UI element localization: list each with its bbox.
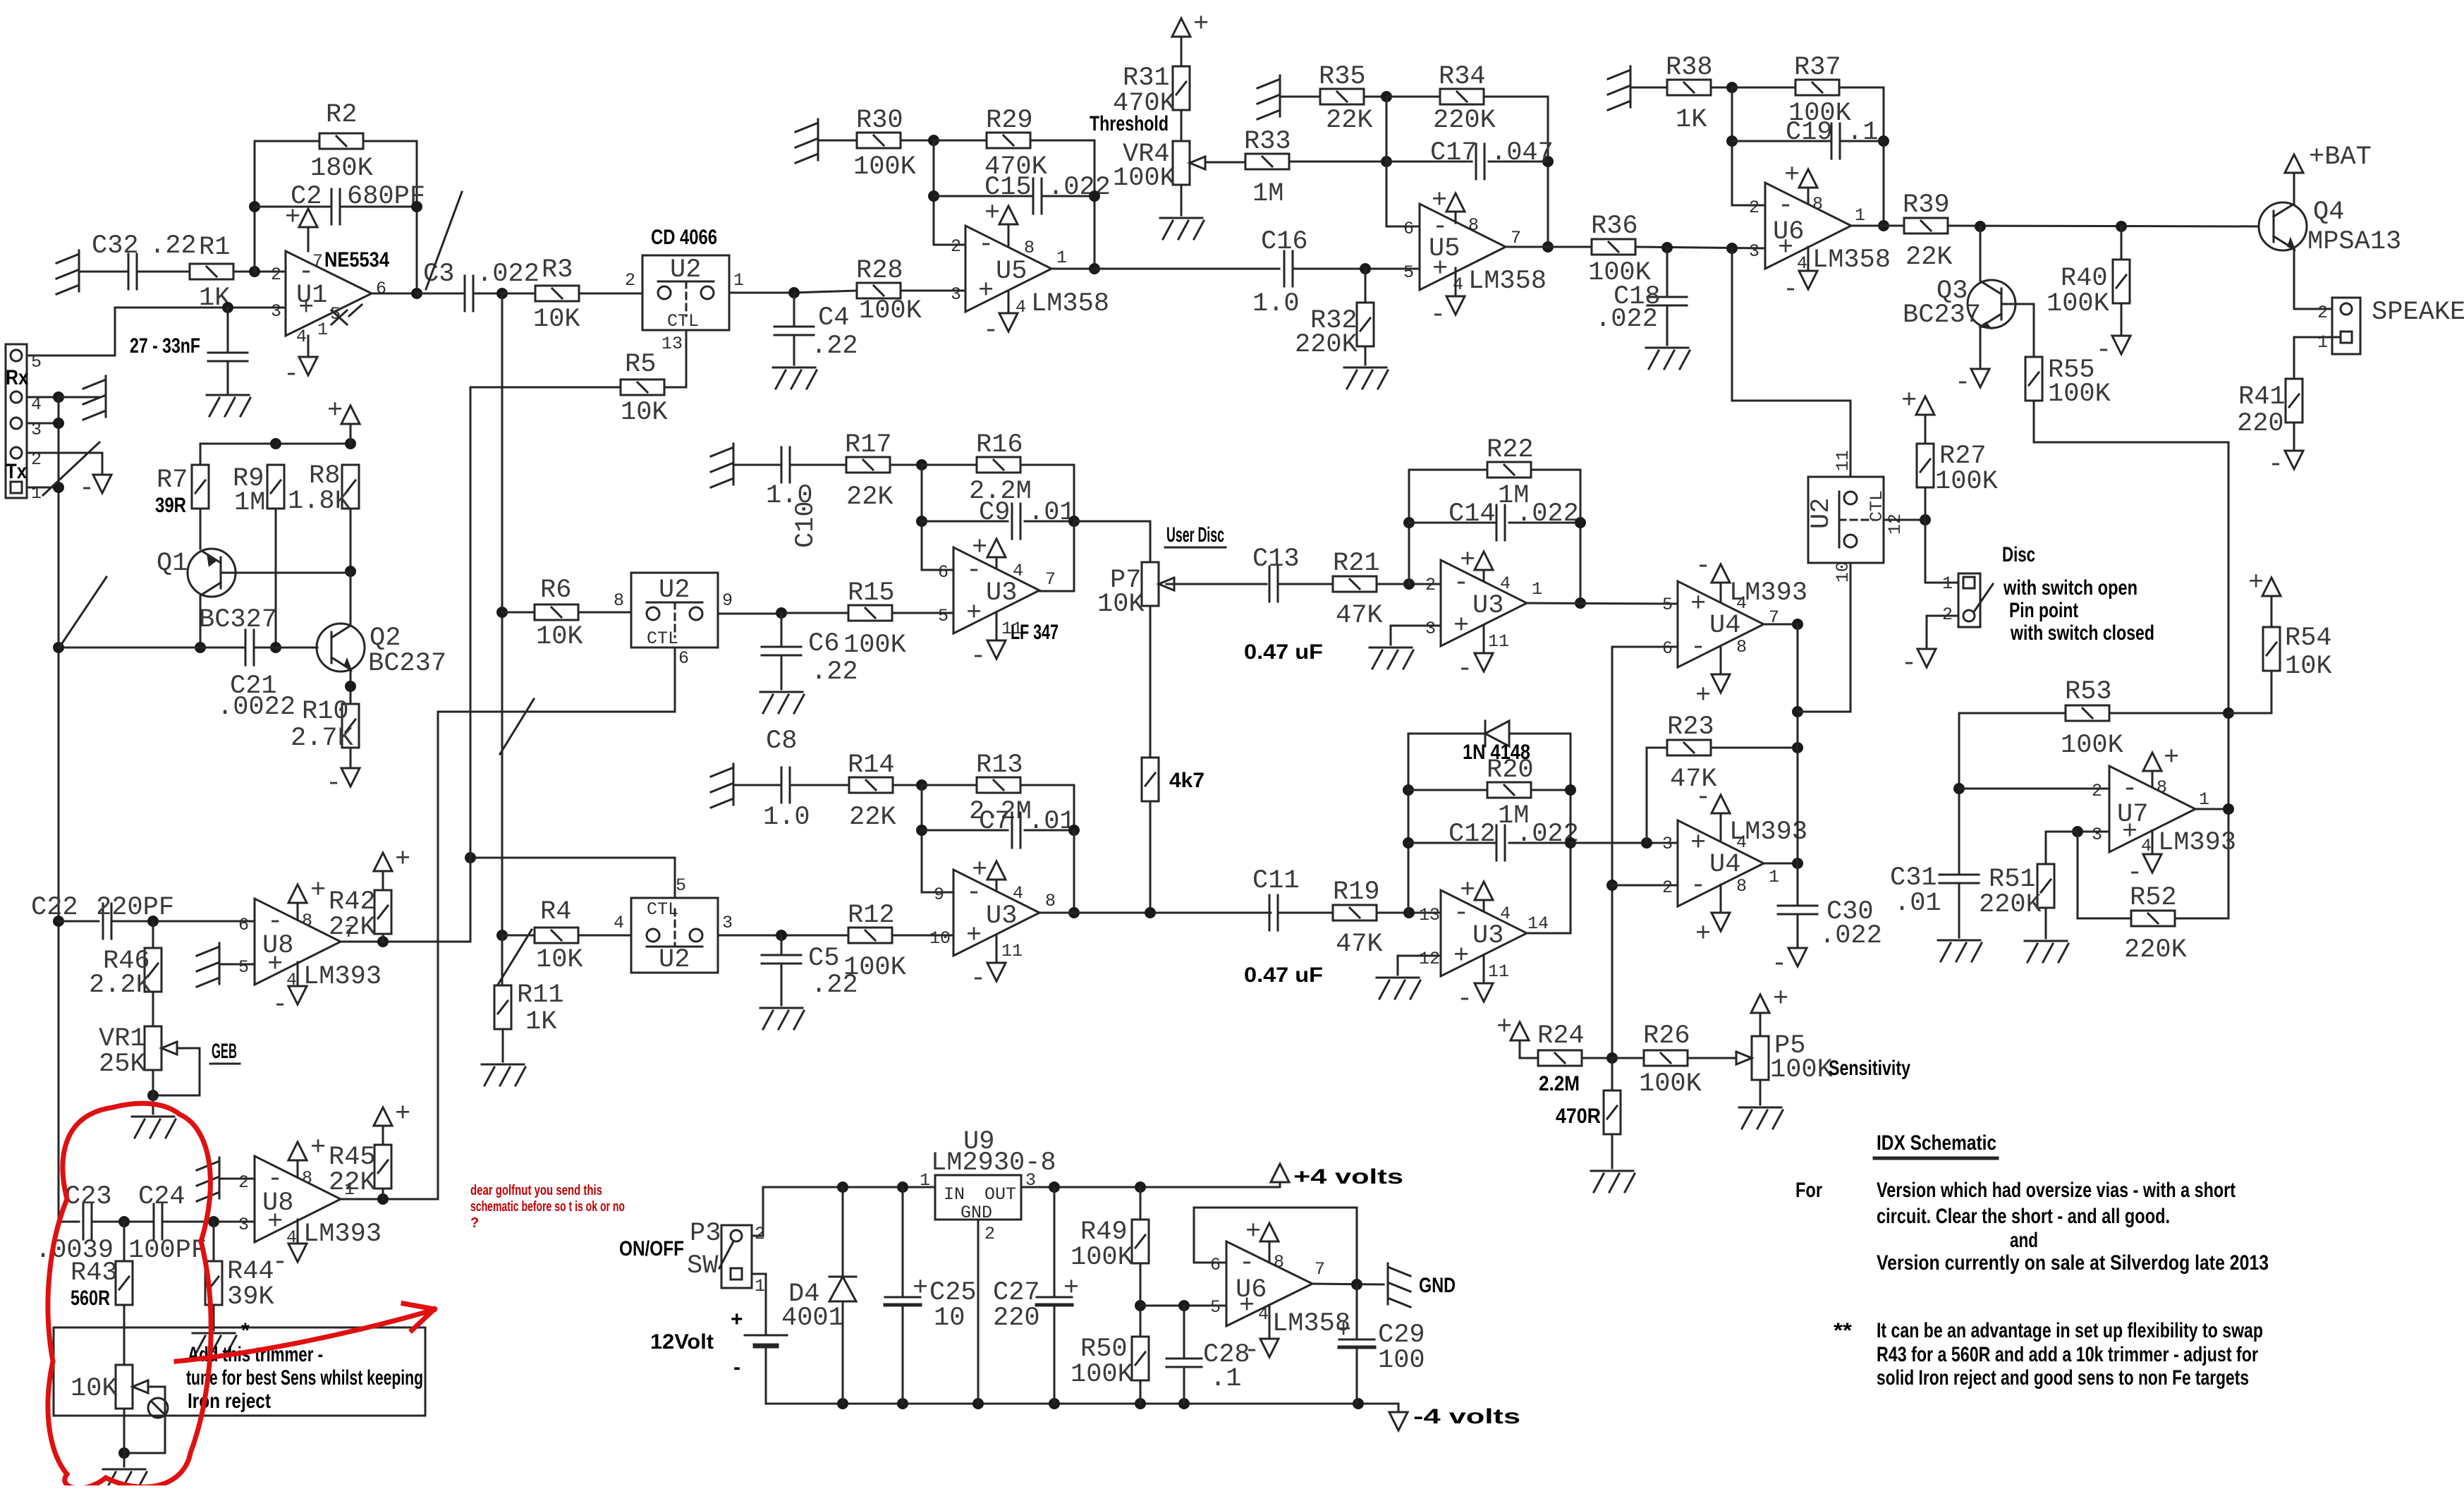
node U6 pin3 bbox=[1726, 243, 1738, 254]
wire R23 right bbox=[1711, 747, 1798, 749]
wire R1 to U1 pin2 bbox=[233, 271, 286, 273]
red text note bbox=[470, 1183, 625, 1231]
annotation box trimmer bbox=[54, 1319, 425, 1416]
node C15 right bbox=[1089, 190, 1100, 202]
U8B V+ arrow bbox=[288, 1134, 326, 1176]
wire U6B out bbox=[1311, 1284, 1384, 1284]
wire C8 left bbox=[733, 784, 781, 786]
svg-text:1.8K: 1.8K bbox=[288, 487, 351, 516]
wire R52 left bbox=[2078, 832, 2131, 918]
wire R38 left bbox=[1630, 87, 1667, 89]
wire U3C out to U4 pin5 bbox=[1527, 603, 1678, 604]
svg-text:-: - bbox=[1239, 1248, 1255, 1278]
svg-text:1: 1 bbox=[1942, 573, 1953, 594]
svg-text:6: 6 bbox=[678, 648, 689, 669]
node U6 out bbox=[1878, 220, 1889, 231]
svg-text:+: + bbox=[731, 1308, 743, 1331]
svg-text:C10: C10 bbox=[791, 501, 821, 548]
svg-text:12Volt: 12Volt bbox=[650, 1330, 714, 1354]
node C18 bbox=[1661, 242, 1673, 253]
ground (VR1) bbox=[132, 1117, 176, 1138]
wire U6B feedback bbox=[1194, 1208, 1357, 1284]
svg-text:1M: 1M bbox=[234, 488, 265, 518]
svg-text:R11: R11 bbox=[517, 980, 564, 1010]
wire C29 top lead bbox=[1356, 1284, 1358, 1339]
svg-text:BC327: BC327 bbox=[199, 605, 277, 635]
wire C10 to R17 bbox=[790, 464, 846, 466]
-4 volts arrow bbox=[1389, 1405, 1520, 1430]
label LM358 (U5B) bbox=[1468, 267, 1547, 296]
wire C16 to U5B pin5 bbox=[1293, 268, 1420, 270]
wire R8 down bbox=[350, 509, 352, 571]
svg-text:6: 6 bbox=[1210, 1255, 1221, 1275]
wire U8A out bbox=[341, 941, 470, 943]
svg-text:5: 5 bbox=[676, 875, 686, 896]
red scribble loop bbox=[48, 1103, 211, 1488]
wire U2 pin12 CTL bbox=[1884, 519, 1925, 521]
svg-text:Pin point: Pin point bbox=[2009, 599, 2078, 622]
svg-text:U4: U4 bbox=[1709, 850, 1740, 880]
label LM393 (U7) bbox=[2158, 828, 2236, 858]
wire C13 to R21 bbox=[1278, 583, 1333, 585]
svg-text:-: - bbox=[1778, 191, 1793, 221]
ground (trimmer) bbox=[103, 1469, 147, 1489]
svg-text:10K: 10K bbox=[536, 622, 583, 652]
capacitor C13 bbox=[1244, 545, 1323, 664]
U4A V+ arrow bbox=[1695, 646, 1730, 711]
resistor R46 bbox=[89, 947, 161, 1000]
U3B V+ arrow bbox=[972, 856, 1006, 891]
wire C30 to V- bbox=[1797, 914, 1799, 948]
svg-text:CTL: CTL bbox=[647, 628, 678, 649]
svg-text:LM393: LM393 bbox=[303, 962, 382, 992]
ground (GND ref) bbox=[1388, 1263, 1410, 1307]
svg-text:220: 220 bbox=[993, 1303, 1040, 1333]
capacitor C25 bbox=[885, 1274, 977, 1333]
svg-text:R13: R13 bbox=[976, 750, 1023, 780]
ground (U8B pin2) bbox=[197, 1157, 219, 1201]
node user-disc bbox=[1068, 516, 1080, 527]
svg-text:10: 10 bbox=[929, 928, 951, 949]
resistor R24 bbox=[1537, 1021, 1585, 1095]
wire R24 to node bbox=[1582, 1057, 1612, 1059]
capacitor C32 bbox=[92, 231, 197, 289]
wire D4 top lead bbox=[842, 1187, 844, 1277]
wire R5 to CTL bbox=[664, 330, 686, 387]
svg-text:U3: U3 bbox=[986, 901, 1017, 931]
svg-text:+4 volts: +4 volts bbox=[1293, 1165, 1403, 1189]
svg-text:9: 9 bbox=[722, 590, 733, 611]
svg-text:+: + bbox=[1460, 876, 1475, 906]
svg-text:6: 6 bbox=[238, 915, 249, 935]
capacitor 27-33nF bbox=[130, 334, 248, 361]
wire U3C pin3 gnd bbox=[1391, 626, 1441, 645]
resistor 4k7 bbox=[1142, 758, 1204, 801]
V+ arrow (P5) bbox=[1751, 985, 1788, 1014]
wire C2 right bbox=[340, 206, 417, 208]
svg-text:+: + bbox=[978, 276, 994, 306]
svg-text:3: 3 bbox=[1425, 619, 1436, 639]
svg-text:8: 8 bbox=[1468, 215, 1479, 236]
node R23 tap bbox=[1641, 837, 1652, 849]
wire to C16 bbox=[1094, 268, 1279, 270]
op-amp U8 (A) bbox=[238, 899, 355, 990]
svg-text:dear golfnut you send this: dear golfnut you send this bbox=[470, 1183, 602, 1198]
svg-text:1: 1 bbox=[1769, 867, 1779, 887]
svg-text:+: + bbox=[972, 856, 987, 885]
node C17 right bbox=[1542, 156, 1554, 167]
svg-text:13: 13 bbox=[661, 334, 683, 354]
wire R10 to V- bbox=[350, 748, 352, 768]
capacitor C3 bbox=[423, 260, 539, 311]
svg-text:CTL: CTL bbox=[647, 899, 678, 920]
capacitor C23 bbox=[35, 1182, 114, 1265]
wire U7 pin3 bbox=[2078, 831, 2109, 833]
op-amp U5 (B) bbox=[1403, 204, 1521, 295]
transistor Q4 bbox=[2259, 197, 2401, 257]
resistor R39 bbox=[1903, 190, 1953, 272]
wire R11 to ground bbox=[502, 1029, 504, 1062]
wire diode row left bbox=[1408, 733, 1484, 735]
svg-text:-: - bbox=[733, 1356, 740, 1379]
svg-text:1: 1 bbox=[2317, 332, 2328, 353]
svg-text:C9: C9 bbox=[979, 498, 1010, 528]
note line 3 bbox=[2010, 1229, 2038, 1252]
svg-text:+: + bbox=[310, 876, 326, 906]
V+ arrow (R27) bbox=[1901, 387, 1934, 416]
wire control bus B bbox=[437, 712, 439, 1199]
node C9 left bbox=[916, 516, 927, 527]
node feedback left C2 bbox=[249, 201, 260, 212]
node C27 top bbox=[1049, 1181, 1060, 1193]
node bus R23 bbox=[1792, 742, 1803, 753]
wire speaker pin1 bbox=[2294, 337, 2341, 379]
wire C12 row to U4B pin3 bbox=[1571, 842, 1678, 844]
node R45 bbox=[377, 1193, 389, 1205]
wire C21 to Q2 base bbox=[254, 647, 317, 649]
node U3C pin2 bbox=[1403, 578, 1415, 590]
svg-text:+: + bbox=[1690, 829, 1706, 858]
wire U2 pin13 CTL bbox=[685, 330, 688, 387]
svg-text:.0022: .0022 bbox=[217, 693, 295, 722]
wire R51 to ground bbox=[2045, 908, 2047, 938]
node C29 bottom bbox=[1353, 1398, 1364, 1409]
wire R22 left bbox=[1409, 469, 1487, 471]
wire C27 top lead bbox=[1054, 1187, 1056, 1296]
note stars bbox=[1834, 1319, 1852, 1342]
wire R43 to trimmer bbox=[123, 1305, 126, 1365]
wire C32 to R1 bbox=[137, 271, 190, 273]
svg-text:180K: 180K bbox=[310, 154, 374, 183]
wire U5B out bbox=[1506, 246, 1592, 248]
svg-text:1K: 1K bbox=[525, 1007, 557, 1037]
ground (R32) bbox=[1344, 367, 1388, 389]
svg-text:GND: GND bbox=[960, 1203, 992, 1223]
node pin3 on bus bbox=[53, 418, 64, 429]
diode D4 4001 bbox=[781, 1277, 856, 1333]
wire C23 left bbox=[59, 1221, 79, 1223]
node Q2 emitter bbox=[345, 681, 356, 692]
U3A V- arrow bbox=[970, 612, 1006, 671]
svg-text:100K: 100K bbox=[1639, 1069, 1702, 1099]
svg-text:39K: 39K bbox=[227, 1282, 274, 1312]
ground (P5) bbox=[1739, 1107, 1783, 1129]
resistor R51 bbox=[1979, 864, 2054, 920]
resistor R34 bbox=[1433, 62, 1496, 135]
resistor R9 bbox=[233, 464, 284, 518]
wire fb U5B left bbox=[1386, 97, 1420, 226]
V- arrow (R10) bbox=[326, 768, 360, 798]
svg-text:.1: .1 bbox=[1210, 1364, 1241, 1394]
wire U3D pin12 gnd bbox=[1398, 956, 1441, 975]
svg-text:R22: R22 bbox=[1487, 435, 1534, 465]
svg-text:11: 11 bbox=[1488, 961, 1509, 982]
wire U8A pin5 bbox=[219, 964, 255, 966]
wire U7 out bbox=[2195, 808, 2228, 810]
svg-text:5: 5 bbox=[1403, 262, 1414, 283]
svg-text:BC237: BC237 bbox=[1903, 300, 1981, 330]
svg-text:47K: 47K bbox=[1670, 765, 1717, 794]
U6A V+ arrow bbox=[1784, 161, 1817, 203]
capacitor C15 bbox=[984, 173, 1111, 214]
svg-text:.01: .01 bbox=[1028, 498, 1075, 528]
svg-text:U6: U6 bbox=[1773, 217, 1804, 247]
svg-text:-: - bbox=[2096, 336, 2111, 365]
node C15 left bbox=[928, 190, 939, 202]
svg-text:.022: .022 bbox=[1048, 173, 1111, 202]
svg-text:+: + bbox=[1453, 942, 1469, 971]
wire R35 right bbox=[1364, 96, 1386, 98]
svg-text:.022: .022 bbox=[1819, 921, 1882, 951]
svg-text:R28: R28 bbox=[856, 256, 903, 286]
V+ arrow (R54) bbox=[2248, 569, 2281, 598]
capacitor C22 bbox=[31, 893, 174, 939]
svg-text:560R: 560R bbox=[71, 1287, 110, 1310]
svg-text:LM358: LM358 bbox=[1468, 267, 1547, 296]
V- arrow (C30) bbox=[1771, 948, 1807, 979]
svg-text:7: 7 bbox=[1511, 228, 1521, 248]
svg-text:BC237: BC237 bbox=[368, 649, 446, 679]
svg-text:100K: 100K bbox=[843, 631, 907, 660]
svg-text:U3: U3 bbox=[1472, 591, 1504, 621]
label LM358 (U6B) bbox=[1272, 1309, 1350, 1339]
svg-text:-: - bbox=[1783, 275, 1798, 305]
wire C12 right bbox=[1509, 842, 1571, 844]
svg-text:2: 2 bbox=[951, 236, 961, 257]
ground (C4) bbox=[773, 367, 817, 389]
wire outputs bus bbox=[1797, 624, 1799, 906]
wire node to R16 bbox=[922, 464, 977, 466]
node fb2 R20 right bbox=[1565, 784, 1576, 796]
svg-text:7: 7 bbox=[1045, 569, 1056, 590]
svg-text:U7: U7 bbox=[2117, 800, 2148, 829]
node D4 bottom bbox=[837, 1398, 848, 1409]
wire U7 pin2 bbox=[1959, 788, 2109, 790]
svg-text:R38: R38 bbox=[1666, 53, 1713, 83]
svg-text:R4: R4 bbox=[540, 897, 571, 927]
wire Q4 emitter bbox=[2294, 249, 2332, 309]
wire C9 left lead bbox=[922, 521, 1008, 523]
resistor R5 bbox=[621, 350, 668, 427]
resistor R38 bbox=[1666, 53, 1713, 135]
svg-text:R10: R10 bbox=[302, 697, 349, 727]
node R14/R13 bbox=[916, 779, 927, 791]
node R44 bbox=[208, 1216, 219, 1227]
svg-text:-: - bbox=[79, 474, 94, 504]
wire R54 link bbox=[2228, 671, 2271, 713]
svg-text:R39: R39 bbox=[1903, 190, 1950, 220]
transistor Q3 bbox=[1903, 276, 2015, 330]
node fb2 R20 left bbox=[1403, 784, 1414, 796]
wire P3 pin1 bbox=[752, 1274, 766, 1335]
ground (C6) bbox=[760, 692, 804, 713]
wire U8B pin2 bbox=[219, 1178, 255, 1180]
transistor Q1 bbox=[157, 549, 277, 635]
U7 V- arrow bbox=[2127, 830, 2161, 888]
svg-text:CTL: CTL bbox=[1867, 490, 1887, 522]
capacitor C11 bbox=[1244, 866, 1323, 987]
svg-text:4: 4 bbox=[1013, 883, 1023, 904]
svg-text:8: 8 bbox=[1045, 891, 1056, 911]
wire feedback to out2 bbox=[1073, 830, 1075, 913]
wire VR4 wiper to R33 bbox=[1205, 162, 1245, 164]
note line 4 bbox=[1877, 1251, 2269, 1275]
resistor R50 bbox=[1071, 1335, 1149, 1390]
svg-text:-: - bbox=[1244, 1336, 1260, 1366]
svg-text:2: 2 bbox=[2092, 781, 2102, 801]
svg-text:100: 100 bbox=[1378, 1346, 1425, 1375]
wire to C3 bbox=[417, 293, 465, 295]
svg-text:Tx: Tx bbox=[6, 460, 27, 483]
wire R20 right bbox=[1531, 789, 1571, 791]
svg-text:6: 6 bbox=[1403, 219, 1414, 239]
svg-text:7: 7 bbox=[1315, 1259, 1325, 1280]
wire R13 right bbox=[1020, 785, 1074, 830]
wire C7 vertical left bbox=[922, 785, 953, 892]
ground (VR4) bbox=[1160, 218, 1204, 239]
label Disc note bbox=[2002, 543, 2154, 645]
wire Q3 collector bbox=[1980, 226, 1982, 281]
wire U2 pin6 CTL bbox=[438, 648, 675, 712]
svg-text:+: + bbox=[984, 199, 1000, 229]
analog switch U2 (pins 2-1) bbox=[625, 255, 744, 354]
note line 5 bbox=[1877, 1319, 2263, 1342]
node Q1 col/C21 bbox=[195, 642, 206, 653]
svg-text:13: 13 bbox=[1419, 905, 1440, 925]
capacitor C29 bbox=[1336, 1316, 1425, 1375]
wire U4A out bbox=[1764, 624, 1798, 626]
wire U9 gnd lead bbox=[977, 1220, 980, 1404]
wire bus to U2 pin10 bbox=[1798, 563, 1850, 712]
node R46 bbox=[147, 916, 159, 927]
svg-text:+: + bbox=[1193, 10, 1209, 39]
capacitor C5 bbox=[762, 944, 858, 1000]
svg-text:27 - 33nF: 27 - 33nF bbox=[130, 334, 200, 358]
wire R41 down bbox=[2293, 423, 2295, 451]
wire R28 to U5A pin3 bbox=[901, 290, 965, 292]
wire R37 right bbox=[1839, 87, 1884, 226]
svg-text:+: + bbox=[913, 1274, 928, 1303]
svg-text:3: 3 bbox=[722, 913, 733, 933]
resistor R49 bbox=[1071, 1217, 1149, 1272]
potentiometer VR4 bbox=[1113, 140, 1205, 193]
op-amp U6 (B) bbox=[1210, 1241, 1325, 1326]
svg-text:1: 1 bbox=[1056, 248, 1067, 268]
ground (R30) bbox=[795, 119, 818, 163]
resistor R42 bbox=[329, 887, 391, 942]
note line 2 bbox=[1877, 1205, 2170, 1228]
wire R39 right bbox=[1948, 226, 2259, 226]
node bus/R4 bbox=[496, 930, 508, 941]
wire C18 to ground bbox=[1666, 305, 1669, 345]
label Threshold bbox=[1090, 112, 1169, 135]
svg-text:2.2K: 2.2K bbox=[89, 971, 152, 1000]
svg-text:C13: C13 bbox=[1252, 545, 1300, 574]
svg-text:1: 1 bbox=[1532, 579, 1542, 600]
node R32 bbox=[1360, 263, 1371, 274]
svg-text:.22: .22 bbox=[811, 971, 858, 1000]
svg-text:U2: U2 bbox=[1807, 498, 1836, 529]
wire R16 right bbox=[1020, 465, 1074, 521]
svg-text:+: + bbox=[2248, 569, 2264, 598]
capacitor C9 bbox=[979, 498, 1075, 539]
svg-text:+: + bbox=[1432, 186, 1447, 216]
svg-text:R26: R26 bbox=[1643, 1021, 1690, 1051]
wire R4 to U2 pin4 bbox=[578, 935, 631, 937]
svg-text:with switch closed: with switch closed bbox=[2010, 621, 2154, 645]
wire C17 left bbox=[1386, 161, 1472, 163]
node U5A out bbox=[1089, 263, 1100, 274]
svg-text:.022: .022 bbox=[1595, 305, 1658, 334]
node 470R bbox=[1606, 1052, 1618, 1064]
wire R55 to bus bbox=[2034, 401, 2228, 918]
wire R31 to VR4 bbox=[1181, 110, 1183, 141]
svg-text:R5: R5 bbox=[625, 350, 656, 379]
svg-text:R41: R41 bbox=[2238, 382, 2286, 412]
resistor R41 bbox=[2237, 379, 2303, 439]
wire R54 top bbox=[2271, 596, 2273, 627]
U1 V- arrow bbox=[283, 336, 317, 389]
node R33/C17 bbox=[1381, 156, 1392, 167]
svg-text:12: 12 bbox=[1419, 949, 1440, 969]
svg-text:LM393: LM393 bbox=[1729, 818, 1807, 847]
wire R52 right bbox=[2175, 918, 2228, 920]
svg-text:100K: 100K bbox=[2047, 289, 2110, 319]
wire C19 left bbox=[1732, 140, 1831, 142]
svg-text:schematic before so t is ok or: schematic before so t is ok or no bbox=[470, 1199, 625, 1215]
svg-text:U4: U4 bbox=[1709, 611, 1740, 640]
red arrow bbox=[176, 1303, 434, 1361]
svg-text:U8: U8 bbox=[262, 931, 293, 961]
svg-text:8: 8 bbox=[1736, 876, 1747, 897]
svg-text:Disc: Disc bbox=[2002, 543, 2035, 566]
wire node to R13 bbox=[922, 784, 977, 786]
wire cap 27-33nF stem bbox=[227, 308, 229, 353]
wire control bus A bbox=[470, 387, 472, 942]
wire R46 to VR1 bbox=[152, 992, 154, 1026]
wire R53 right bbox=[2109, 712, 2228, 715]
wire C5 to ground bbox=[781, 964, 783, 1005]
node VR1 bottom bbox=[147, 1090, 159, 1101]
wire Q3 emitter bbox=[1980, 327, 1982, 369]
wire P3 pin2 bbox=[752, 1187, 763, 1236]
wire P5 bottom bbox=[1759, 1080, 1762, 1105]
potentiometer P5 bbox=[1736, 1031, 1834, 1085]
U1 V+ arrow bbox=[285, 203, 317, 251]
svg-text:100K: 100K bbox=[1071, 1360, 1134, 1390]
svg-text:?: ? bbox=[470, 1215, 479, 1231]
svg-text:R52: R52 bbox=[2130, 883, 2177, 913]
